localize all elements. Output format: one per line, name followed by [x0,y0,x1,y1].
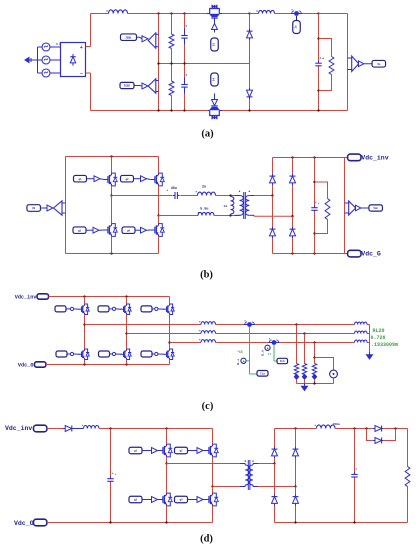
svg-text:5.5u: 5.5u [200,208,208,212]
wire (d) DB2 above [295,429,297,448]
wire (a) bottom rail [91,110,348,112]
wire (b) D2 below [292,185,294,216]
node (b) xfmr top [229,194,231,196]
gate label box QD3 [129,496,142,503]
wire (c) bottom rail [46,364,170,366]
wire (a) C1 top [184,14,186,29]
svg-text:Vo: Vo [377,63,381,66]
node (d) bot leg1 [165,521,167,523]
wire (c) leg3 c [169,360,171,365]
svg-text:150u: 150u [333,422,341,426]
node (a) mid leg1 [157,62,159,64]
node phase A load [295,323,297,325]
svg-text:G3: G3 [213,43,216,47]
svg-text:g1: g1 [134,450,138,453]
label i1 green [268,353,272,356]
wire (d) Cd top [110,429,112,478]
transformer T1 primary [235,191,244,216]
wire (a) mid rail [159,63,250,65]
wire (b) Cdc bottom [314,211,316,253]
transformer T1 secondary [245,191,254,216]
wire (c) source loop b [333,378,335,384]
wire (a) Co top [318,14,320,63]
value 2u [202,186,206,190]
terminal Vdc_G (d) [33,519,47,526]
wire phase C 3 [280,342,355,344]
label +65 green [237,350,243,354]
inductor Lgc [355,340,368,342]
wire (c) leg1 a [84,297,86,304]
wire (a) C1 bottom [184,45,186,64]
load L2 [302,374,306,379]
wire phase B 2 [216,333,355,335]
svg-text:ILb: ILb [280,359,285,363]
wire rectifier + to top rail [86,14,91,47]
wire (d) Cout top [354,429,356,474]
wire (b) D4 below [292,238,294,254]
gate driver Q4 [141,227,152,233]
wire (d) Q1 above [166,429,168,445]
svg-text:+: + [243,359,245,363]
transformer T2 core [248,460,250,490]
node (a) output top [317,12,319,14]
gate label box QD4 [175,496,188,503]
node phase B load [303,332,305,334]
ground load [302,384,308,391]
svg-text:g3: g3 [134,499,138,502]
wire (a) right edge [347,14,349,111]
gate driver S1 [142,36,148,42]
wire (d) DB1 above [274,429,276,448]
wire (d) sec bottom [258,486,296,488]
node (d) snub left [365,427,367,429]
wire (a) C2 top [184,64,186,78]
node (c) top leg1 [83,295,85,297]
wire gate QD2 [188,450,198,452]
wire (d) DB4 below [295,506,297,523]
node (b) top leg1 [110,155,112,157]
gate driver QD2 [197,448,206,454]
gate label box Q1 [74,175,87,182]
node (a) bottom leg1 [157,109,159,111]
wire (b) out bottom a [159,215,199,217]
wire gate QD1 [142,450,152,452]
wire gate T6 [152,353,155,355]
wire (b) left edge [65,157,67,254]
wire gate T1 [66,308,70,310]
wire (b) secondary top [254,195,273,197]
wire (a) leg S2 [158,64,160,111]
MOSFET Q2 [151,173,164,186]
svg-text:IL.a: IL.a [237,358,240,365]
wire (b) out top c [216,195,240,197]
gate label box T1 [55,306,66,312]
capacitor Co [315,57,324,69]
inductor Lr [196,191,216,195]
label RL20 [373,328,385,334]
wire (a) D1 bottom [249,40,251,64]
svg-text:G4: G4 [213,78,216,82]
svg-text:Vdc_G: Vdc_G [361,251,381,258]
node (b) rect bot cap [313,252,315,254]
svg-text:IGB2: IGB2 [124,85,131,88]
node (c) load3 bottom [313,382,315,384]
svg-text:(d): (d) [200,533,213,544]
wire (d) xfmr bottom [213,486,241,488]
load L3 [312,374,316,379]
svg-text:40u: 40u [171,187,177,191]
node (d) bot cout [353,521,355,523]
capacitor Cd [107,472,116,484]
wire (d) Q2 above [212,429,214,445]
wire (d) input a [47,428,63,430]
wire (a) D1 top [249,14,251,30]
AC source Vc [42,69,50,77]
node (b) Cdc lower [313,232,315,234]
source Vg [330,370,338,378]
wire (c) load bottom [297,383,334,385]
label ILb small [261,349,265,356]
value 1m [223,205,227,208]
wire (b) Q3 above [111,196,113,224]
gate label box T3 [141,306,152,312]
value 150u [333,422,341,426]
node (d) sec bottom [294,485,296,487]
voltage sensor VS1 [348,56,373,72]
resistor R1 [169,34,174,49]
svg-text:+: + [322,57,324,61]
wire (c) top rail [49,296,170,298]
gate label box S2 [120,82,134,88]
gate label box S4 [211,73,219,86]
node (c) phase1 [83,323,85,325]
label box VS1 [372,60,386,67]
MOSFET QD3 [159,493,172,506]
switch controller S1 [148,33,158,48]
ground (a) input [25,57,38,62]
gate driver Q2 [141,176,152,182]
wire (b) Q4 below [158,236,160,253]
node (b) bottom leg1 [110,252,112,254]
node (a) mid leg3 [183,62,185,64]
MOSFET T3 [163,304,174,314]
wire (b) bottom rail [66,253,159,255]
wire phase C 1 [170,342,202,344]
resistor Rdc [325,199,330,220]
AC source Vb [42,56,50,64]
wire (d) Q3 below [166,506,168,523]
gate label box S3 [211,38,219,51]
node (d) leg1 mid [165,462,167,464]
wire load1 b [296,379,298,383]
gate driver T2 [112,307,121,310]
wire (a) leg S1 [158,14,160,64]
node (b) in bottom [291,215,293,217]
wire (b) D2 above [292,158,294,175]
svg-text:1m: 1m [223,205,227,208]
wire (a) top rail to node [222,13,250,15]
svg-text:Vdc_inv: Vdc_inv [361,155,388,162]
wire (c) leg2 a [126,297,128,304]
diode Din [63,426,74,432]
gate driver S4 [212,94,218,106]
node (a) top leg3 [183,12,185,14]
capacitor Cb [173,192,180,199]
capacitor C1 [181,25,187,44]
node (d) leg2 mid [211,485,213,487]
gate driver QD1 [152,448,160,454]
wire gate QD4 [188,499,198,501]
wire (a) R2 top [171,64,173,82]
diode DR1 [270,174,276,185]
inductor L2 [256,10,274,13]
wire load2 a [304,334,306,364]
gate driver T5 [112,352,121,355]
current sensor ILa [244,321,255,327]
wire rectifier - to bottom rail [86,73,91,111]
MOSFET T6 [163,349,174,359]
diode DR3 [270,227,276,238]
ground grid [367,352,373,359]
svg-text:.1933009m: .1933009m [371,342,398,348]
wire (a) C2 bottom [184,94,186,111]
node (d) out cap [353,427,355,429]
node (b) Cdc upper [313,181,315,183]
wire (b) Q4 above [158,216,160,224]
wire (b) out top a [112,195,173,197]
wire (d) Q3 above [166,464,168,494]
MOSFET QD1 [159,444,172,457]
wire (d) DB3 below [274,506,276,523]
voltage probe (b) input [54,201,66,215]
svg-text:Vdc_G: Vdc_G [14,520,34,527]
wire load3 b [314,379,316,383]
resistor Ro [329,57,334,75]
diode DS1 [373,426,384,432]
wire ILb green [274,345,277,362]
capacitor Cdc [311,201,319,213]
wire phase C 4 [367,342,370,344]
svg-text:0.726: 0.726 [371,335,386,341]
svg-text:g2: g2 [125,178,129,181]
wire gate T5 [110,353,113,355]
wire phase A 1 [85,324,202,326]
gate driver QD3 [152,497,160,503]
label ILa small [237,358,240,365]
wire (c) leg1 b [84,315,86,350]
svg-text:Vdc: Vdc [373,206,378,210]
inductor Lga [355,322,368,324]
gate label box T5 [99,351,110,357]
wire (d) Q2 below [212,457,214,487]
svg-text:g3: g3 [78,229,82,232]
diode DB3 [272,495,278,506]
svg-text:g2: g2 [179,450,183,453]
load R1 [294,364,298,375]
snubber loop [367,429,396,441]
node (c) top leg2 [125,295,127,297]
gate label box S1 [121,34,137,41]
load R2 [302,364,306,375]
gate driver T4 [70,352,79,355]
resistor R2 [169,81,174,96]
wire (d) DB1 below [274,458,276,464]
wire gate S1 [137,37,143,39]
wire (b) D4 above [292,216,294,227]
svg-text:+: + [115,472,117,476]
wire (d) bottom rail right [275,522,408,524]
MOSFET T4 [78,349,89,359]
node (c) load3 tap [313,356,315,358]
node (d) snub right [394,427,396,429]
node (d) sec top [273,462,275,464]
wire (d) rect top rail [275,428,317,430]
node (a) diode top [248,12,250,14]
wire (c) leg3 a [169,297,171,304]
label (d) [200,533,213,544]
gate label box T4 [56,351,67,357]
wire (b) right edge [344,158,346,254]
wire (b) out bottom b [214,215,240,217]
wire (a) source bus [38,47,43,73]
svg-text:+: + [267,346,269,350]
wire phase A 2 [216,324,245,326]
node (a) Co upper [317,37,319,39]
node (a) mid leg2 [170,62,172,64]
wire phase C 2 [216,342,269,344]
current sensor CS1 [291,10,302,16]
label Vdc_G (c) [18,362,34,368]
wire (b) secondary bottom [254,214,293,217]
wire (a) R1 top [171,14,173,35]
node (a) top leg1 [157,12,159,14]
load R3 [312,364,316,375]
svg-text:+: + [80,45,83,51]
gate label box Q2 [121,175,134,182]
svg-text:Vdc_inv: Vdc_inv [15,294,38,300]
value 5.5u [200,208,208,212]
wire (d) out rail a [335,428,373,430]
wire (c) source loop [315,358,334,371]
wire load3 a [314,343,316,364]
gate driver S2 [142,83,148,89]
wire (a) to output node [302,13,319,15]
inductor L1 [106,10,127,14]
wire phase B 3 [367,333,370,335]
diode DB4 [293,495,299,506]
wire (d) Q4 below [212,506,214,523]
wire (a) top rail left [91,13,109,15]
rectifier bridge BD1 [56,43,85,77]
wire phase B 1 [127,333,202,335]
node (c) phase3 [168,341,170,343]
label 0.726 [371,335,386,341]
MOSFET S3 [207,5,222,24]
gate label box QD1 [129,447,142,454]
wire (c) leg2 b [126,315,128,350]
MOSFET T5 [120,349,131,359]
wire (b) rect top rail [273,157,348,159]
node (d) bot cap [109,521,111,523]
svg-text:+: + [318,201,320,205]
gate driver T1 [70,307,79,310]
node (b) in top [271,194,273,196]
svg-text:Io: Io [295,25,298,29]
wire (d) right edge a [407,429,409,467]
wire phase A 4 [367,324,370,326]
wire (d) Cout bottom [354,478,356,523]
wire (a) D2 bottom [249,99,251,111]
wire (d) DB2 below [295,458,297,487]
current sensor ILb [269,339,280,345]
wire (b) Q2 above [158,157,160,174]
wire (d) input b [74,428,84,430]
wire (a) sources to rectifier [50,47,61,73]
wire (d) Q4 above [212,487,214,494]
node (d) bot d2 [294,521,296,523]
node (a) top leg2 [170,12,172,14]
label Vdc_inv (c) [15,294,38,300]
capacitor C2 [181,74,187,93]
svg-text:IGB1: IGB1 [125,36,132,39]
wire (b) D1 below [272,185,274,196]
wire gate T2 [109,308,112,310]
wire (d) bottom rail left [47,522,213,524]
wire (a) R1 bottom [171,49,173,64]
svg-text:(b): (b) [200,269,213,280]
capacitor Cout [351,468,357,479]
terminal Vdc_inv (c) [37,294,49,299]
resistor loop (b) [315,182,328,234]
MOSFET QD4 [205,493,218,506]
node (d) rect top d2 [294,427,296,429]
terminal Vdc_inv (b) [348,154,362,161]
MOSFET T2 [120,304,131,314]
node phase C load [313,341,315,343]
svg-text:11: 11 [268,353,272,356]
inductor Lr2 [198,212,214,215]
transformer T2 secondary [249,460,258,486]
wire (b) D3 below [272,238,274,254]
node (a) bottom leg2 [170,109,172,111]
label .1933009m [371,342,398,348]
inductor Lm [231,196,234,216]
wire (d) sec top [258,463,275,465]
svg-text:g1: g1 [78,178,82,181]
node (c) bot leg1 [83,363,85,365]
svg-text:g4: g4 [127,229,131,232]
value 40u [167,187,177,191]
node (c) phase2 [125,332,127,334]
MOSFET S4 [207,101,222,120]
MOSFET Q1 [104,173,117,186]
inductor Ld [82,425,99,429]
label (c) [202,401,214,412]
wire (b) Q1 above [111,157,113,174]
load L1 [294,374,298,379]
inductor La [199,321,215,324]
meter ILb [265,345,270,350]
node (b) rect bot d2 [291,252,293,254]
wire gate Q4 [135,229,141,231]
MOSFET T1 [78,304,89,314]
node (a) bottom Co [317,109,319,111]
svg-text:IL.b: IL.b [261,349,265,356]
label box CS1 [293,16,301,34]
wire (a) R2 bottom [171,96,173,111]
wire (d) top rail [99,428,213,430]
wire (d) out rail b [384,428,408,430]
